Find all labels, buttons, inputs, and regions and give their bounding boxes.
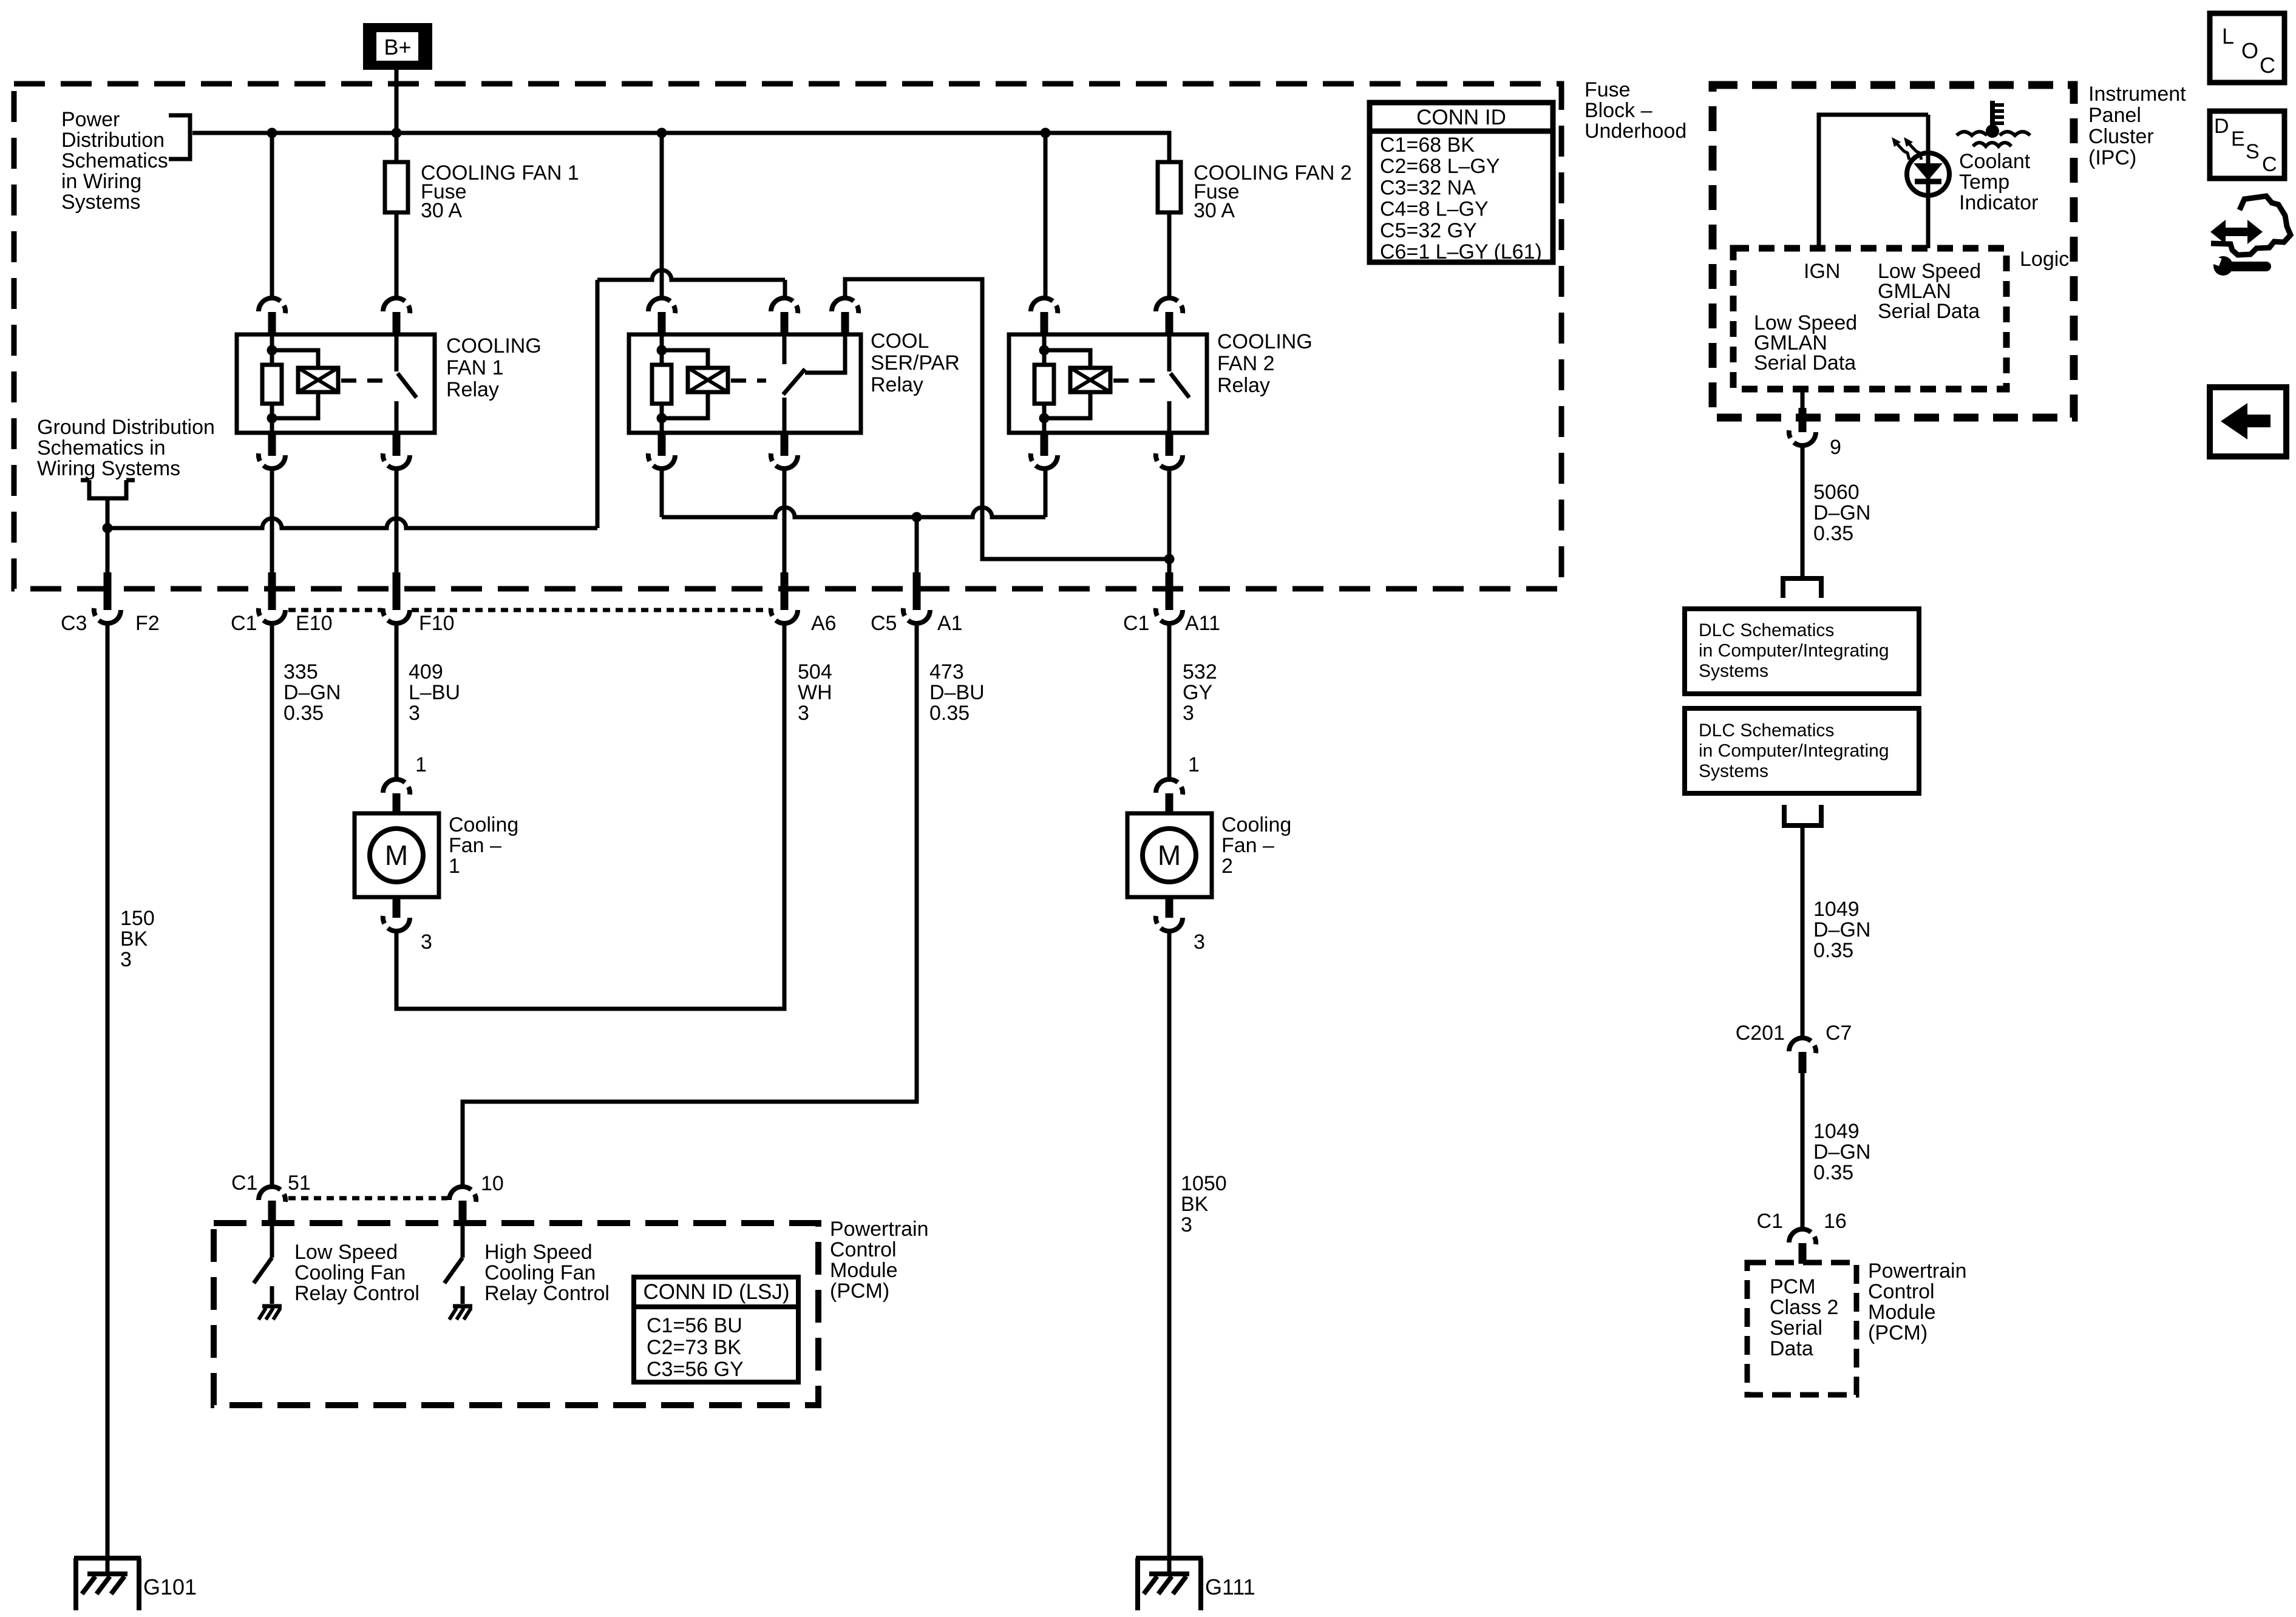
svg-text:Cooling: Cooling — [449, 813, 518, 836]
svg-text:GY: GY — [1183, 681, 1212, 704]
svg-text:C1: C1 — [1123, 612, 1149, 635]
svg-text:C3: C3 — [61, 612, 87, 635]
svg-text:COOLING: COOLING — [446, 334, 542, 358]
svg-text:D: D — [2214, 115, 2229, 138]
svg-text:Indicator: Indicator — [1959, 191, 2038, 214]
svg-text:A11: A11 — [1185, 612, 1220, 635]
svg-text:C1=68 BK: C1=68 BK — [1380, 134, 1475, 157]
svg-text:in Wiring: in Wiring — [61, 170, 141, 193]
svg-text:30 A: 30 A — [421, 199, 462, 222]
svg-text:M: M — [385, 839, 408, 871]
svg-text:Fuse: Fuse — [1584, 78, 1631, 101]
svg-text:Distribution: Distribution — [61, 129, 165, 152]
svg-text:Schematics: Schematics — [61, 149, 168, 172]
svg-text:Wiring Systems: Wiring Systems — [37, 457, 180, 480]
svg-text:Data: Data — [1770, 1337, 1813, 1360]
svg-text:3: 3 — [1183, 702, 1194, 725]
svg-text:Class 2: Class 2 — [1770, 1296, 1838, 1319]
svg-text:C5: C5 — [871, 612, 897, 635]
svg-text:Relay Control: Relay Control — [294, 1282, 419, 1305]
svg-text:Systems: Systems — [1699, 761, 1768, 781]
svg-text:409: 409 — [409, 660, 443, 683]
svg-text:Relay: Relay — [1217, 374, 1270, 397]
svg-text:10: 10 — [481, 1172, 504, 1195]
svg-text:Fan –: Fan – — [449, 834, 501, 857]
svg-text:S: S — [2246, 140, 2260, 163]
svg-text:Temp: Temp — [1959, 171, 2009, 194]
svg-text:G101: G101 — [143, 1575, 197, 1599]
svg-text:WH: WH — [798, 681, 832, 704]
svg-text:3: 3 — [1194, 931, 1205, 954]
svg-text:D–GN: D–GN — [1813, 918, 1870, 941]
svg-text:Serial Data: Serial Data — [1754, 351, 1856, 375]
svg-text:0.35: 0.35 — [1813, 1161, 1853, 1184]
svg-text:COOLING: COOLING — [1217, 330, 1313, 353]
svg-text:3: 3 — [409, 702, 420, 725]
svg-text:3: 3 — [1181, 1213, 1192, 1236]
svg-text:Relay: Relay — [871, 373, 923, 396]
svg-text:0.35: 0.35 — [1813, 522, 1853, 545]
svg-text:BK: BK — [120, 927, 148, 951]
svg-text:1049: 1049 — [1813, 898, 1860, 921]
svg-text:High Speed: High Speed — [484, 1241, 593, 1264]
svg-text:A1: A1 — [937, 612, 963, 635]
svg-text:C3=56 GY: C3=56 GY — [647, 1358, 744, 1381]
svg-text:C1: C1 — [231, 612, 257, 635]
svg-text:in Computer/Integrating: in Computer/Integrating — [1699, 741, 1889, 761]
svg-text:Cooling: Cooling — [1221, 813, 1291, 836]
svg-text:Relay Control: Relay Control — [484, 1282, 610, 1305]
svg-text:FAN 1: FAN 1 — [446, 356, 503, 379]
svg-text:G111: G111 — [1205, 1575, 1255, 1599]
svg-text:PCM: PCM — [1770, 1275, 1816, 1298]
svg-text:(PCM): (PCM) — [1868, 1321, 1927, 1344]
svg-text:O: O — [2241, 38, 2258, 63]
svg-text:Control: Control — [1868, 1280, 1935, 1303]
svg-text:M: M — [1158, 839, 1181, 871]
svg-text:Systems: Systems — [61, 191, 140, 214]
svg-text:FAN 2: FAN 2 — [1217, 352, 1274, 375]
svg-text:C1: C1 — [1757, 1210, 1783, 1233]
svg-text:9: 9 — [1830, 436, 1841, 459]
svg-text:C3=32 NA: C3=32 NA — [1380, 176, 1476, 199]
svg-text:L: L — [2222, 24, 2234, 49]
svg-text:150: 150 — [120, 907, 155, 930]
svg-text:D–GN: D–GN — [284, 681, 341, 704]
svg-text:C4=8 L–GY: C4=8 L–GY — [1380, 198, 1489, 221]
svg-text:C2=68 L–GY: C2=68 L–GY — [1380, 155, 1500, 178]
svg-text:Control: Control — [830, 1238, 897, 1261]
svg-text:C: C — [2262, 153, 2277, 176]
svg-text:(PCM): (PCM) — [830, 1280, 889, 1303]
svg-text:Powertrain: Powertrain — [830, 1218, 929, 1241]
svg-text:5060: 5060 — [1813, 481, 1860, 504]
svg-text:1: 1 — [415, 753, 427, 776]
svg-text:3: 3 — [798, 702, 809, 725]
svg-text:0.35: 0.35 — [1813, 939, 1853, 962]
svg-text:C1=56 BU: C1=56 BU — [647, 1314, 742, 1337]
svg-text:C7: C7 — [1826, 1022, 1852, 1045]
svg-text:Instrument: Instrument — [2088, 83, 2186, 106]
svg-text:Serial: Serial — [1770, 1317, 1822, 1340]
svg-text:CONN ID (LSJ): CONN ID (LSJ) — [643, 1280, 789, 1304]
svg-text:E10: E10 — [296, 612, 333, 635]
svg-text:Coolant: Coolant — [1959, 150, 2031, 173]
svg-text:in Computer/Integrating: in Computer/Integrating — [1699, 641, 1889, 661]
svg-text:L–BU: L–BU — [409, 681, 460, 704]
svg-text:DLC Schematics: DLC Schematics — [1699, 620, 1834, 640]
svg-text:473: 473 — [929, 660, 964, 683]
svg-text:Module: Module — [830, 1259, 898, 1282]
svg-text:SER/PAR: SER/PAR — [871, 351, 960, 375]
svg-text:C: C — [2260, 53, 2275, 78]
svg-text:E: E — [2231, 127, 2245, 151]
svg-text:504: 504 — [798, 660, 832, 683]
svg-text:16: 16 — [1824, 1210, 1847, 1233]
svg-text:0.35: 0.35 — [929, 702, 970, 725]
svg-text:Systems: Systems — [1699, 661, 1768, 681]
svg-text:D–BU: D–BU — [929, 681, 985, 704]
svg-text:A6: A6 — [811, 612, 837, 635]
svg-text:Ground Distribution: Ground Distribution — [37, 416, 215, 439]
svg-text:3: 3 — [120, 948, 132, 971]
svg-text:CONN ID: CONN ID — [1416, 106, 1506, 129]
svg-text:BK: BK — [1181, 1193, 1209, 1216]
svg-text:C2=73 BK: C2=73 BK — [647, 1336, 741, 1359]
svg-text:Serial Data: Serial Data — [1878, 300, 1980, 323]
svg-text:Logic: Logic — [2020, 248, 2069, 271]
svg-text:Relay: Relay — [446, 378, 499, 401]
svg-text:1: 1 — [449, 855, 460, 878]
svg-text:C201: C201 — [1736, 1022, 1785, 1045]
svg-text:COOL: COOL — [871, 330, 929, 353]
svg-text:Panel: Panel — [2088, 104, 2141, 127]
svg-text:1050: 1050 — [1181, 1172, 1227, 1195]
svg-text:Powertrain: Powertrain — [1868, 1259, 1967, 1283]
svg-text:C1: C1 — [231, 1171, 257, 1195]
svg-text:Fan –: Fan – — [1221, 834, 1274, 857]
svg-text:51: 51 — [288, 1171, 311, 1195]
svg-text:Cooling Fan: Cooling Fan — [294, 1261, 406, 1284]
svg-text:30 A: 30 A — [1194, 199, 1235, 222]
svg-text:B+: B+ — [384, 35, 411, 59]
svg-text:1: 1 — [1188, 753, 1200, 776]
svg-text:Schematics in: Schematics in — [37, 436, 166, 459]
svg-text:IGN: IGN — [1804, 260, 1840, 283]
svg-text:Underhood: Underhood — [1584, 120, 1686, 143]
svg-text:2: 2 — [1221, 855, 1233, 878]
svg-text:Cluster: Cluster — [2088, 125, 2154, 148]
svg-text:D–GN: D–GN — [1813, 501, 1870, 524]
svg-text:0.35: 0.35 — [284, 702, 324, 725]
svg-text:532: 532 — [1183, 660, 1217, 683]
svg-text:Module: Module — [1868, 1301, 1936, 1324]
svg-text:C5=32 GY: C5=32 GY — [1380, 219, 1477, 242]
svg-text:Power: Power — [61, 108, 120, 131]
svg-text:Low Speed: Low Speed — [294, 1241, 398, 1264]
svg-text:(IPC): (IPC) — [2088, 146, 2136, 169]
svg-text:Cooling Fan: Cooling Fan — [484, 1261, 596, 1284]
svg-text:335: 335 — [284, 660, 318, 683]
svg-text:Block –: Block – — [1584, 99, 1652, 122]
svg-text:C6=1 L–GY (L61): C6=1 L–GY (L61) — [1380, 240, 1542, 263]
svg-text:D–GN: D–GN — [1813, 1141, 1870, 1164]
svg-text:F10: F10 — [419, 612, 455, 635]
svg-text:F2: F2 — [135, 612, 160, 635]
svg-text:1049: 1049 — [1813, 1120, 1860, 1143]
svg-text:DLC Schematics: DLC Schematics — [1699, 720, 1834, 741]
svg-text:3: 3 — [421, 931, 432, 954]
